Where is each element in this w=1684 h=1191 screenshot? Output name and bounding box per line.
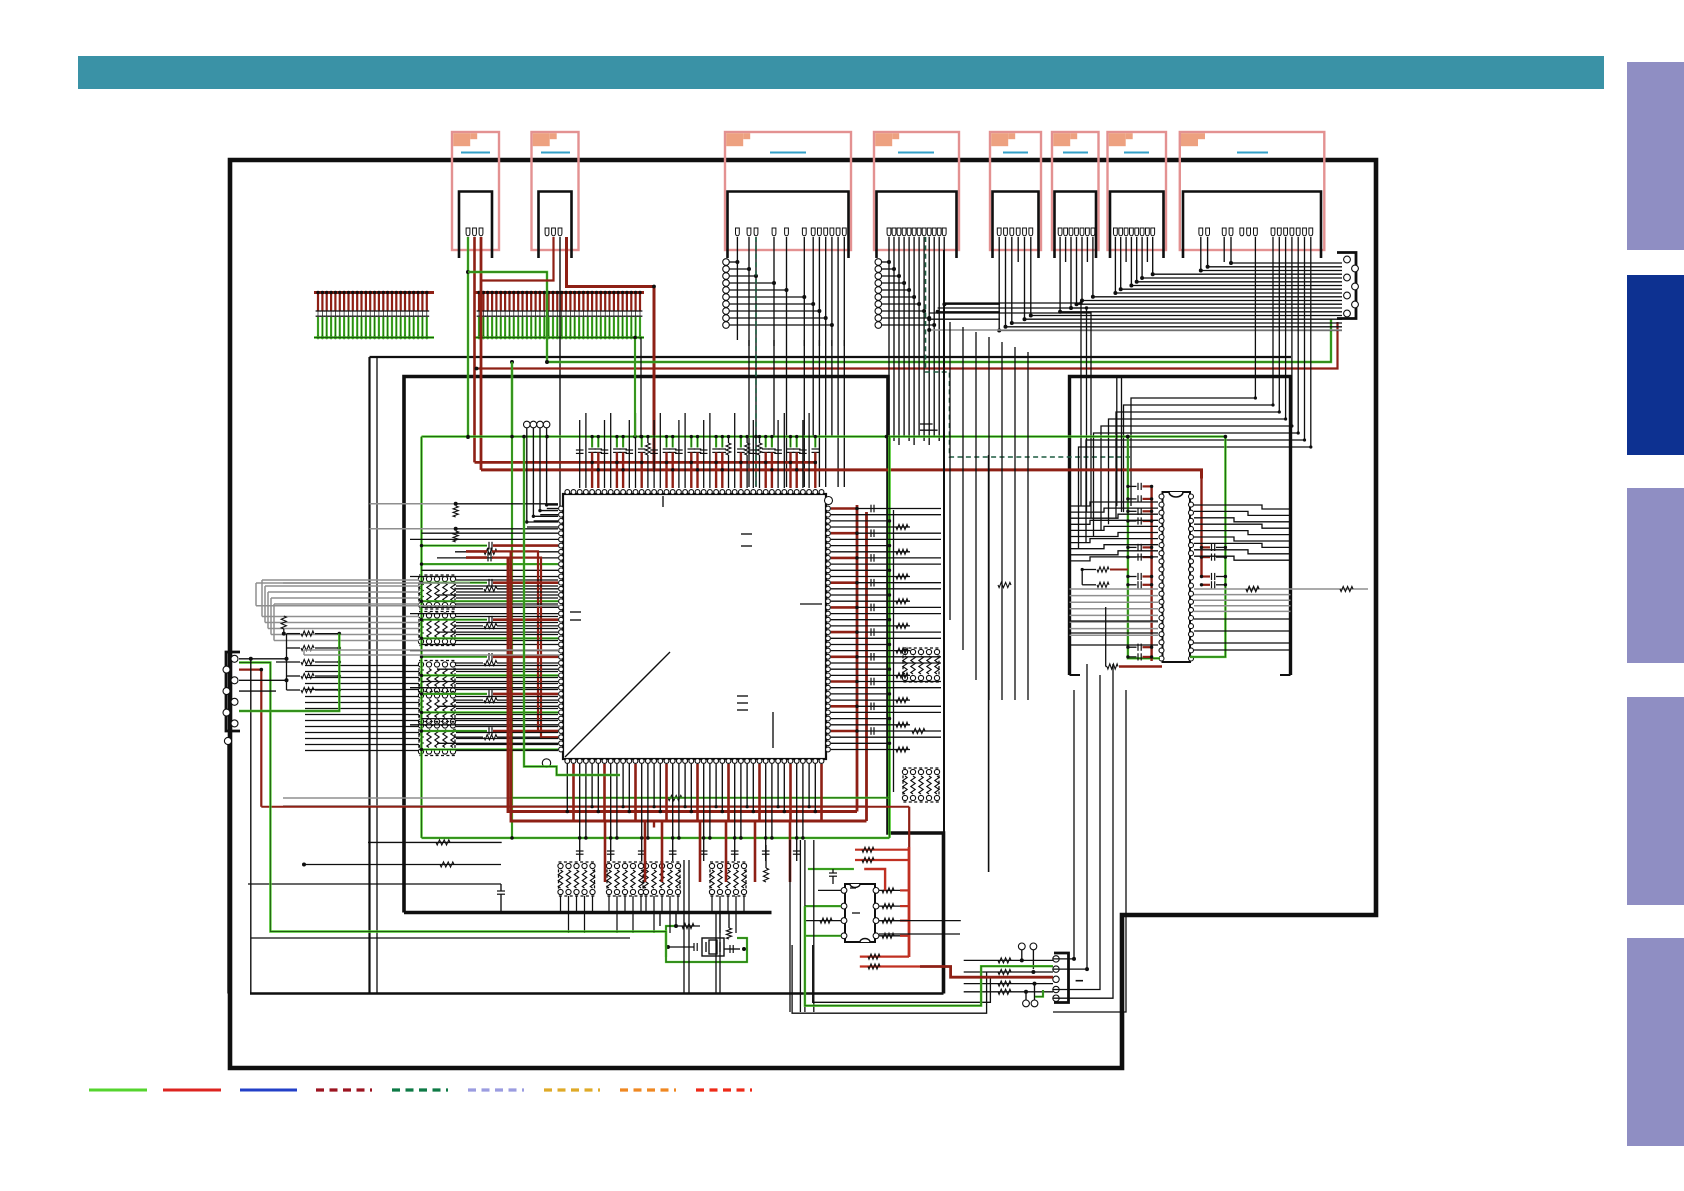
U2 right rows lower black [1194, 618, 1291, 620]
legend solid red [163, 1089, 221, 1092]
DIP sub-board box [1070, 377, 1291, 676]
CN11 maroon feed [908, 807, 910, 847]
sidebar tab 2 (active) [1627, 275, 1684, 455]
connector CN2 label line [541, 152, 570, 154]
wire CN9 green to crystal [239, 663, 666, 958]
IC U1 pin1 marker [542, 759, 550, 767]
gray run to CN10 [929, 329, 1342, 331]
connector CN11 shell [1054, 953, 1069, 1003]
bypass circle stems [527, 428, 558, 522]
connector CN5 pins [997, 228, 1001, 236]
connector CN7 shell [1110, 192, 1164, 259]
long vertical from CN4 to bottom [943, 250, 945, 833]
cap pair bottom-left area [248, 883, 501, 885]
maroon bus B above U1 [481, 470, 1202, 479]
IC U1 diagonal mark [565, 652, 670, 757]
crystal X1 feed wires [659, 913, 661, 927]
vertical links right of U1 [949, 322, 951, 620]
rows from resistor networks to U1 [456, 579, 558, 581]
U3 red top link [864, 869, 885, 890]
crystal X1 body [702, 938, 724, 956]
connector CN5 label line [1003, 152, 1028, 154]
maroon entry to U2 [1200, 470, 1202, 577]
connector CN1 label line [461, 152, 490, 154]
wire CN3 bundle down to U1 [748, 340, 750, 487]
sidebar tab 1 [1627, 62, 1684, 250]
IC U1 pins right column [826, 506, 831, 511]
green spine left of U1 [420, 437, 422, 838]
connector CN2 pins [545, 228, 549, 236]
wire stair run extensions to CN4 bundle [929, 318, 1000, 320]
inner border rect1 bottom [250, 992, 944, 994]
U2 right cap rows [1202, 546, 1211, 548]
IC U1 pins left column [559, 506, 564, 511]
gray bundle loop left of RN1 RN2 [262, 579, 419, 581]
connector CN4 label line [898, 152, 934, 154]
U2 bottom maroon resistor [1105, 607, 1107, 667]
U3 right resistor rows [879, 889, 900, 891]
connector CN5 tab [991, 133, 1008, 146]
resistor network RN3 [419, 661, 455, 695]
legend dashed dark green [392, 1088, 448, 1091]
connector CN6 label line [1063, 152, 1088, 154]
wire CN2 maroon to bus [567, 237, 655, 470]
wire CN4 bundle down [888, 338, 890, 437]
inner border rect1 left [368, 357, 370, 993]
U3 bottom red rows [860, 955, 909, 957]
right rows resistors [998, 582, 1011, 587]
left fan rows to bypass circles [547, 508, 558, 510]
wire CN2 black pin [559, 237, 561, 506]
U2 left cap rows [1128, 485, 1137, 487]
resistor network RN9 [710, 862, 746, 896]
outer board border [230, 160, 1376, 1068]
IC U1 orientation circle top-right [825, 497, 833, 505]
green corner at U1 bottom-left [524, 437, 620, 775]
long vertical beside rect1 [376, 357, 378, 993]
black drop from comb B [640, 338, 642, 437]
legend solid blue [240, 1089, 297, 1092]
connector CN7 pins [1114, 228, 1118, 236]
IC U3 pins [841, 888, 847, 894]
wire CN4 bundle left jog [920, 429, 938, 431]
connector CN4 breakout circles [875, 259, 882, 266]
wire CN9 maroon to lower bus [239, 670, 261, 807]
U3 top cap [808, 868, 854, 870]
dashed net vertical A [755, 237, 757, 487]
resistor network RN10 [903, 648, 939, 682]
U2 left rows gray [1070, 588, 1159, 590]
connector CN5 shell [993, 192, 1039, 259]
gray long rows upper [370, 503, 456, 505]
IC U2 DIP body [1163, 492, 1191, 662]
maroon bus below U1 B [511, 551, 867, 821]
long verticals to bottom-right [1053, 690, 1074, 959]
CN9 gray rows [256, 582, 370, 584]
U2 pullup rows with resistors [1081, 570, 1083, 585]
IC U1 internal tick marks [662, 496, 664, 507]
connector CN2 frame [532, 132, 579, 250]
connector CN3 label line [770, 152, 806, 154]
black vertical x989 [988, 455, 990, 872]
connector CN6 frame [1052, 132, 1099, 250]
green return below U1 [511, 797, 890, 799]
resistor network RN6 [559, 862, 595, 896]
wire CN9 black taps [239, 658, 287, 660]
connector CN3 breakout circles [723, 259, 730, 266]
U2 left rows lower black [1070, 620, 1159, 622]
maroon verticals right of U1 [856, 505, 859, 812]
connector CN3 shell [728, 192, 849, 259]
CN9 pull-up ladder to green rail [287, 633, 301, 635]
IC U1 QFP body [563, 494, 826, 759]
connector CN4 pins [887, 228, 891, 236]
connector CN1 tab [453, 133, 470, 146]
green verticals right of U1 [888, 437, 891, 838]
maroon deep drops below U1 [604, 821, 607, 882]
green bus below U1 [422, 837, 890, 839]
connector CN8 label line [1237, 152, 1268, 154]
connector CN8 shell [1183, 192, 1321, 259]
resistor network RN5 [419, 722, 455, 756]
comb termination bank A columns [317, 293, 319, 311]
sidebar tab 4 [1627, 697, 1684, 905]
connector CN1 frame [452, 132, 499, 250]
bus junction dots [466, 435, 470, 439]
connector CN6 tab [1053, 133, 1070, 146]
wire CN2 green [468, 272, 547, 362]
connector CN11 pins [1053, 956, 1059, 962]
legend dashed light purple [468, 1088, 524, 1091]
green drop from comb B [634, 338, 636, 437]
IC U1 pins bottom row [565, 759, 570, 764]
connector CN9 shell [226, 652, 240, 731]
CN11 resistor rows [964, 959, 1053, 961]
ground stub under CN9 [227, 745, 229, 994]
connector CN6 pins [1058, 228, 1062, 236]
connector CN4 shell [877, 192, 957, 259]
resistor network RN2 [419, 612, 455, 646]
connector CN8 tab [1181, 133, 1198, 146]
wire long maroon row to CN10 [477, 322, 1338, 369]
comb termination bank A bottom bus [314, 336, 434, 338]
green vertical x512 [511, 362, 513, 838]
right rows of U1 [831, 507, 857, 510]
maroon thick bus drop x654 continues [653, 820, 655, 828]
maroon bus below U1 A [508, 558, 857, 812]
outward row with resistor [1291, 588, 1369, 590]
connector CN9 pins [231, 655, 238, 662]
connector CN8 pins [1199, 228, 1203, 236]
sidebar tab 5 [1627, 938, 1684, 1146]
U2 entry verticals [1116, 378, 1118, 506]
wire CN1 green [467, 237, 469, 437]
connector CN8 frame [1180, 132, 1325, 250]
teal header bar [78, 56, 1604, 89]
inner border rect1 top [370, 356, 1292, 358]
connector CN5 frame [990, 132, 1041, 250]
resistor row bottom-left A [368, 841, 502, 843]
black row toward crystal [251, 937, 630, 939]
U3 left rows [805, 905, 841, 907]
IC U2 pins right [1189, 494, 1194, 499]
wire CN8 staircase into DIP region [1131, 237, 1255, 506]
connector CN10 pins [1344, 256, 1351, 263]
maroon rows left of U1 [493, 551, 558, 731]
dashed net vertical B [926, 237, 1131, 457]
bottom tail verticals [683, 860, 685, 994]
connector CN3 frame [725, 132, 851, 250]
drops below U1 [566, 764, 568, 812]
crystal X1 capacitors [666, 946, 694, 948]
maroon thin return from CN9 [261, 806, 909, 808]
U3 feed verticals [789, 840, 791, 1012]
resistor network RN7 [607, 862, 643, 896]
vertical resistor below U1 [763, 868, 768, 882]
inner border rect2 (thick sub-board) [404, 377, 944, 994]
left rows of U1 [422, 532, 559, 534]
legend solid green [89, 1089, 147, 1092]
connector CN4 frame [874, 132, 959, 250]
CN11 junction dots [1020, 958, 1024, 962]
wire DIP entry corners [944, 303, 1081, 506]
CN11 green feed [805, 906, 1053, 1006]
sidebar tab 3 [1627, 488, 1684, 663]
legend dashed orange [620, 1088, 676, 1091]
wire CN1 maroon A [473, 237, 476, 462]
bypass circles above U1 [524, 421, 531, 428]
IC U1 pins top row [565, 490, 570, 495]
decoupling drops above U1 [579, 420, 581, 488]
U2 left rows upper [1070, 502, 1159, 506]
legend dashed red [696, 1088, 752, 1091]
wire CN1 maroon B [480, 237, 483, 470]
connector CN2 shell [539, 192, 572, 259]
connector CN4 tab [875, 133, 892, 146]
legend dashed dark red [316, 1088, 372, 1091]
resistor network stems below U1 [560, 896, 562, 913]
green loop around U2 [1128, 437, 1160, 659]
CN9 green rail [239, 634, 339, 711]
maroon bus A above U1 [475, 461, 818, 464]
U2 right rows gray [1194, 588, 1291, 590]
comb termination bank B top bus [475, 291, 644, 294]
wire CN4 fan [882, 261, 889, 263]
connector CN11 dash mark [1076, 980, 1083, 982]
resistor network RN1 [419, 575, 455, 609]
connector CN3 tab [726, 133, 743, 146]
connector CN6 shell [1055, 192, 1097, 259]
comb termination bank B columns [478, 293, 480, 311]
inner border rect2 bottom edge [404, 911, 772, 915]
U3 red rail [908, 847, 911, 957]
wire CN2 maroon [481, 237, 554, 281]
connector CN7 frame [1108, 132, 1167, 250]
crystal X1 resistor top [676, 925, 700, 927]
U3 right long rows [879, 920, 961, 922]
wire green drop mid [511, 362, 513, 437]
resistor row bottom-left B [304, 864, 501, 866]
wire long green row to CN10 [547, 319, 1331, 363]
crystal X1 resistor right [726, 928, 731, 939]
IC U2 pins left [1159, 494, 1164, 499]
connector CN11 free pins [1018, 943, 1025, 950]
resistor network RN4 [419, 692, 455, 726]
maroon rail left of U2 [1150, 486, 1152, 661]
comb termination bank A top bus [314, 291, 434, 294]
rows out of resistor networks to the left [305, 665, 419, 667]
green bus above U1 [422, 435, 1227, 437]
connector CN7 tab [1109, 133, 1126, 146]
crystal X1 loop [666, 938, 747, 962]
U2 right rows upper [1194, 505, 1291, 509]
U3 red rows [855, 849, 909, 851]
vertical resistors on gray taps [453, 506, 458, 517]
connector CN1 pins [466, 228, 470, 236]
legend dashed goldenrod [544, 1088, 600, 1091]
comb termination bank B bottom bus [475, 336, 644, 338]
wire staircase CN5-CN8 to CN10 [999, 237, 1342, 331]
connector CN1 shell [459, 192, 492, 259]
connector CN3 pins [736, 228, 740, 236]
bottom tail nested returns [792, 945, 987, 1013]
connector CN10 shell [1337, 253, 1356, 319]
connector CN7 label line [1124, 152, 1149, 154]
wire CN3 fan [729, 261, 737, 263]
gray long rows lower [283, 582, 470, 584]
resistor network RN8 [644, 862, 680, 896]
resistor network RN11 [903, 768, 939, 802]
connector CN2 tab [533, 133, 550, 146]
IC U3 body [845, 884, 875, 942]
